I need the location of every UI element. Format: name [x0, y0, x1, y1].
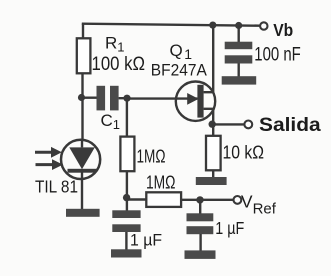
ground (below C2)	[111, 249, 142, 257]
wire: Vb rail down to C4	[237, 26, 239, 43]
junction: source / R4 / Salida node	[209, 121, 216, 128]
terminal VRef	[234, 196, 242, 204]
wire: node down to R2	[126, 98, 128, 137]
svg-text:1MΩ: 1MΩ	[146, 172, 176, 192]
resistor R4 10 kΩ	[206, 136, 221, 171]
wire: drain up to Vb rail	[212, 25, 214, 93]
resistor R1	[77, 38, 91, 73]
wire: C3 to ground	[199, 234, 201, 252]
resistor R2 1MΩ (vertical)	[120, 137, 134, 172]
wire: R1 bottom to TIL81	[81, 73, 83, 141]
transistor Q1 (JFET BF247A)	[176, 82, 215, 121]
svg-text:10 kΩ: 10 kΩ	[223, 143, 265, 163]
capacitor C2 1µF (left)	[112, 210, 140, 232]
capacitor C3 1µF (right)	[187, 213, 214, 234]
wire: junction to R3 left lead	[127, 198, 147, 200]
wire: node to Salida terminal	[212, 123, 244, 125]
ground (below C4)	[222, 76, 257, 84]
wire: C4 to ground	[237, 64, 239, 77]
capacitor C1	[97, 86, 119, 111]
light arrow 1	[35, 147, 62, 158]
svg-text:BF247A: BF247A	[151, 61, 208, 80]
wire: source down to output node	[212, 109, 214, 136]
junction: R1 / C1 / TIL81 node	[78, 94, 85, 101]
wire: top Vb rail	[82, 24, 260, 26]
wire: C1 right lead	[119, 97, 127, 99]
light arrow 2	[36, 159, 64, 170]
junction: R2 / R3 / C2 node	[123, 194, 130, 201]
wire: TIL81 cathode to ground	[81, 172, 83, 210]
svg-text:Salida: Salida	[259, 115, 321, 136]
junction: C1 / gate / R2 node	[123, 95, 130, 102]
photodiode D1 (TIL 81)	[61, 140, 100, 179]
svg-text:1MΩ: 1MΩ	[137, 147, 166, 167]
wire: C1 left lead	[82, 96, 97, 98]
junction: 100nF / Vb rail	[235, 22, 242, 29]
ground (below TIL 81)	[66, 209, 100, 217]
terminal Vb	[260, 22, 267, 29]
svg-text:1 µF: 1 µF	[130, 230, 162, 249]
wire: R3 right lead to VRef terminal	[181, 199, 234, 201]
wire: R2 bottom to junction	[126, 171, 128, 212]
wire: C2 to ground	[125, 232, 127, 250]
wire: left rail top segment	[82, 24, 84, 40]
wire: gate lead to Q1	[127, 97, 197, 99]
junction: drain / Vb rail	[209, 22, 216, 29]
resistor R3 1MΩ (horizontal)	[146, 192, 181, 207]
ground (below C3)	[185, 250, 216, 259]
svg-text:Vb: Vb	[273, 20, 293, 40]
ground (below R4)	[196, 177, 227, 185]
wire: node down to C3	[199, 200, 201, 214]
svg-text:100 kΩ: 100 kΩ	[92, 54, 146, 75]
wire: R4 bottom to ground	[212, 170, 214, 177]
svg-text:1 µF: 1 µF	[215, 218, 244, 238]
junction: R3 / C3 / VRef node	[196, 196, 203, 203]
capacitor C4 100 nF	[225, 42, 253, 64]
svg-text:100 nF: 100 nF	[254, 43, 301, 65]
svg-text:TIL 81: TIL 81	[35, 177, 78, 197]
terminal Salida	[244, 121, 252, 129]
